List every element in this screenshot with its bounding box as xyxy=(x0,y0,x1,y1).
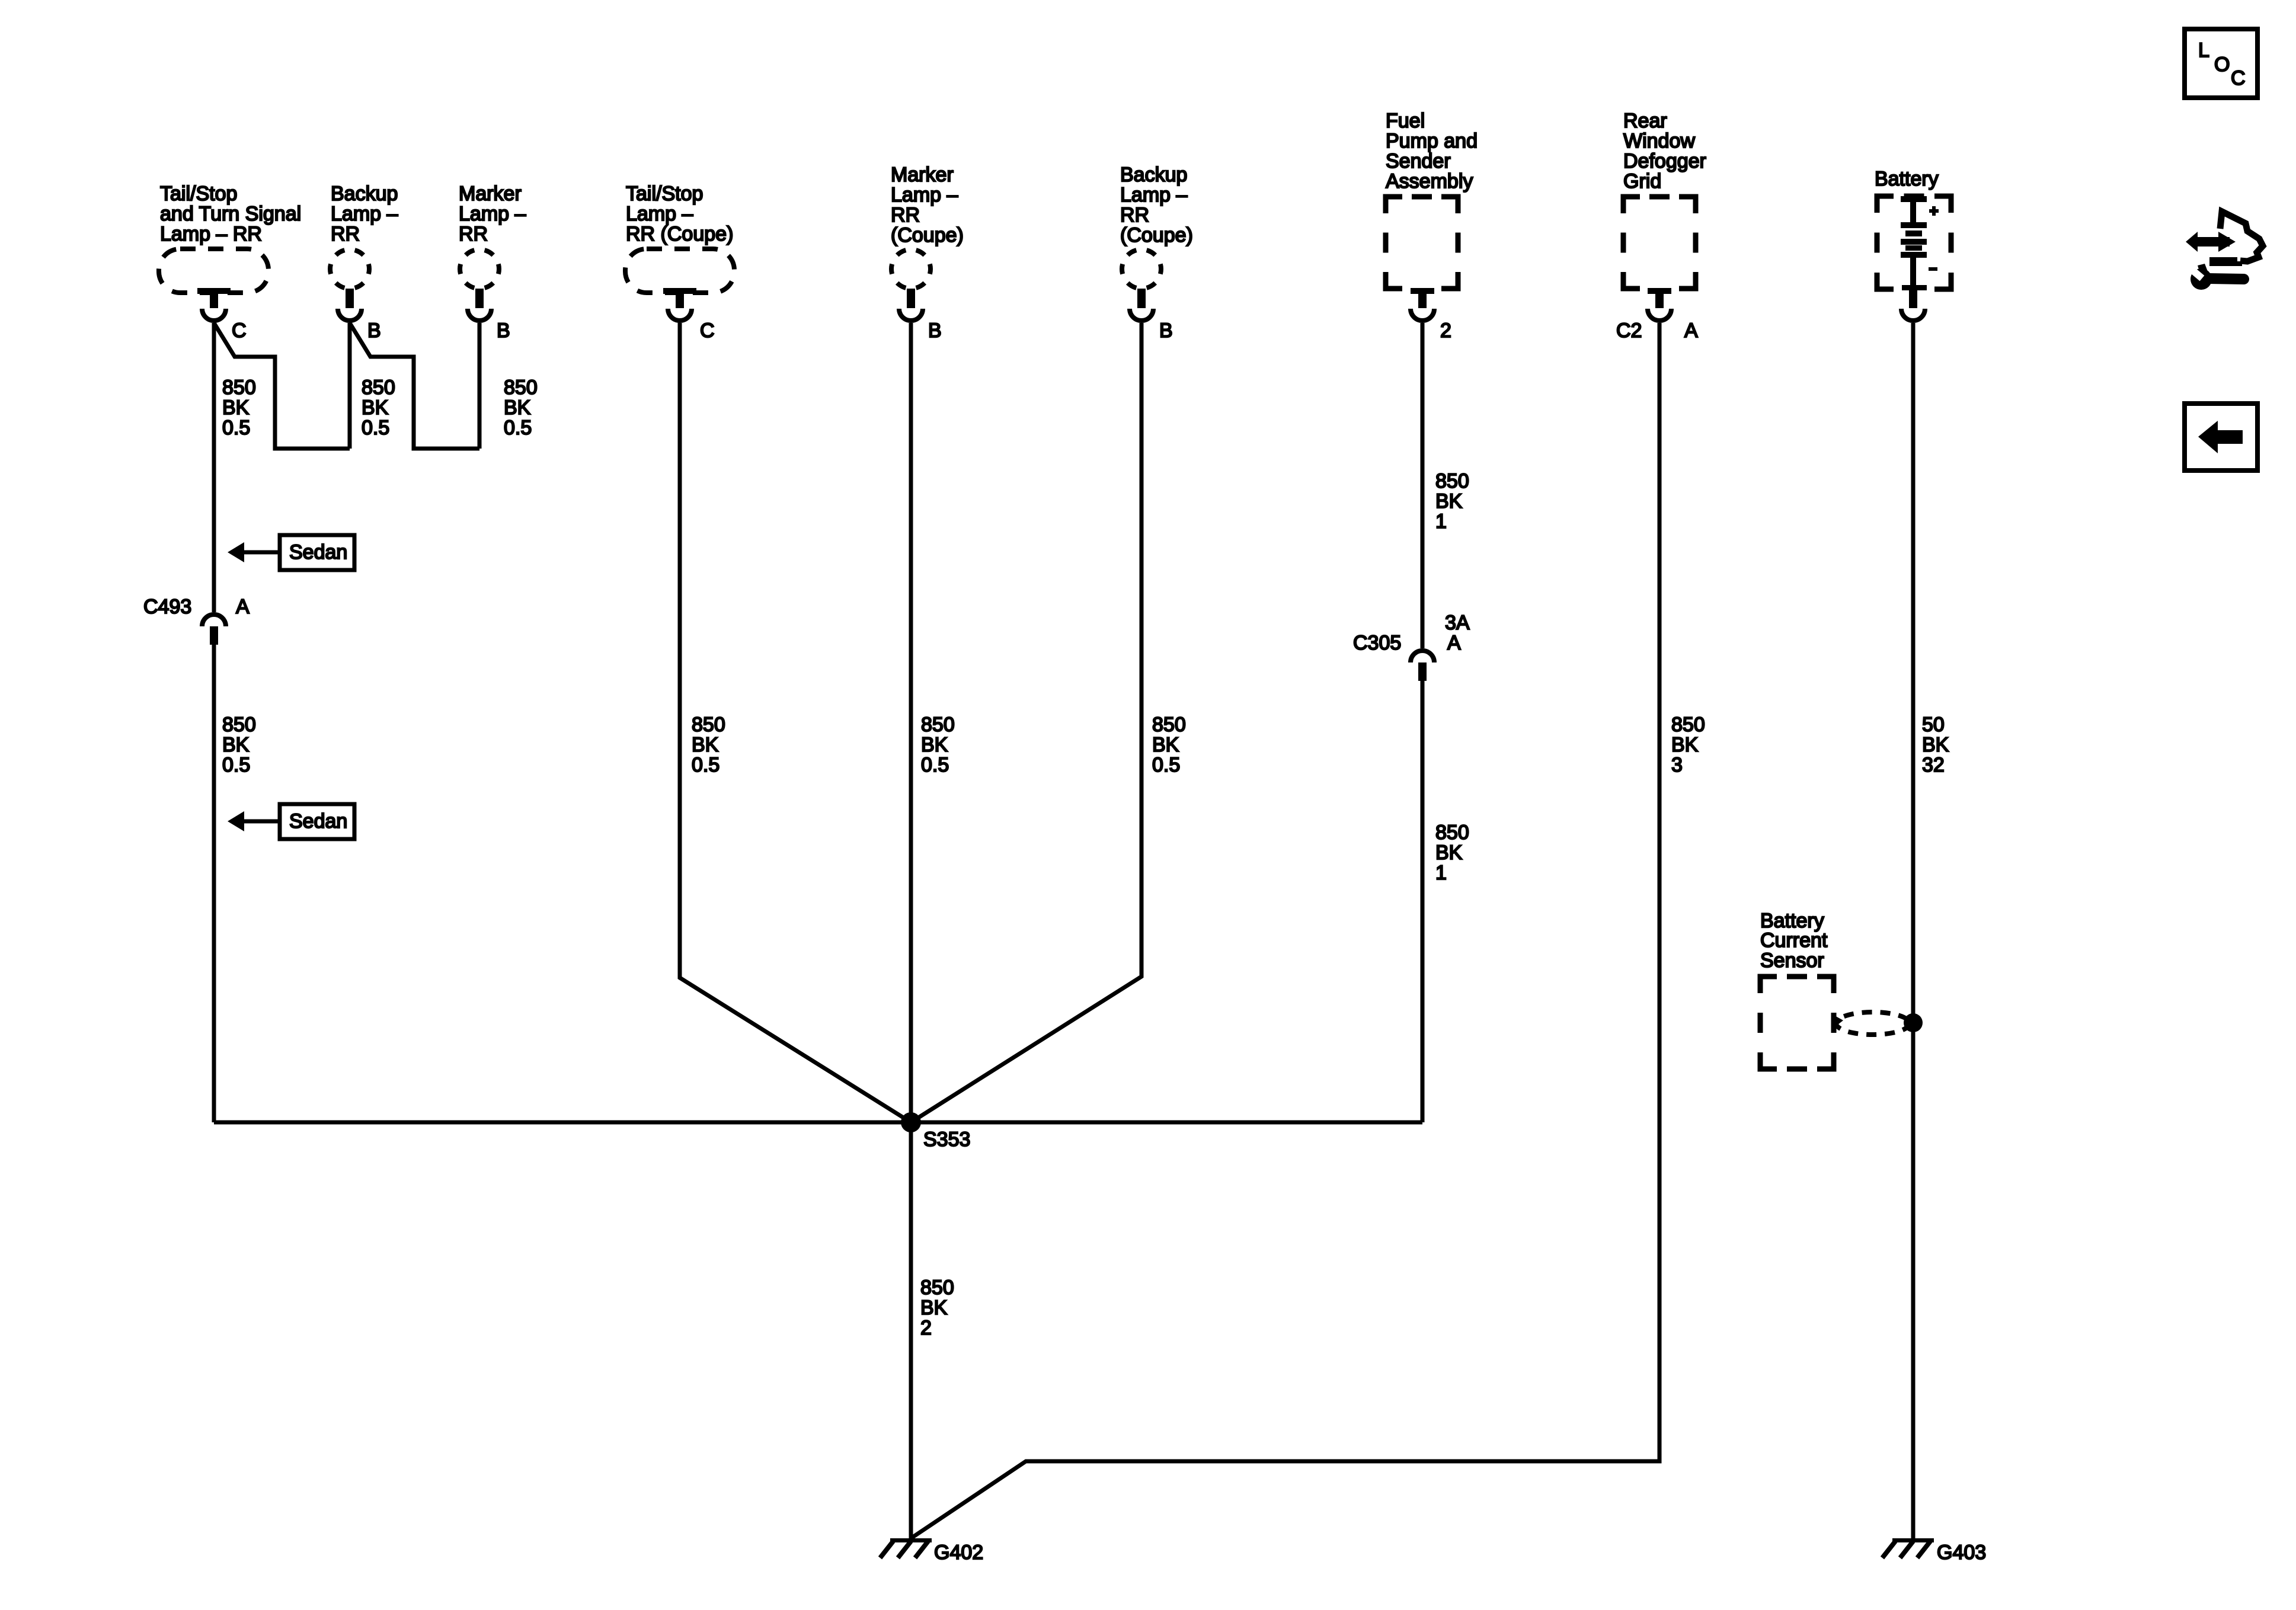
svg-text:BK: BK xyxy=(1671,734,1699,756)
svg-text:Sender: Sender xyxy=(1386,150,1451,172)
svg-text:C: C xyxy=(700,319,715,342)
svg-text:A: A xyxy=(236,596,250,618)
svg-text:BK: BK xyxy=(504,396,531,419)
svg-text:850: 850 xyxy=(222,713,256,736)
label: Tail/Stop Lamp - RR (Coupe) heading xyxy=(626,183,733,245)
svg-text:2: 2 xyxy=(1440,319,1451,342)
svg-text:BK: BK xyxy=(692,734,719,756)
component: Battery (dashed box with battery symbol) xyxy=(1877,196,1951,321)
svg-text:BK: BK xyxy=(921,734,948,756)
ground G402 xyxy=(880,1538,983,1564)
svg-text:0.5: 0.5 xyxy=(362,417,389,439)
svg-text:Marker: Marker xyxy=(891,164,954,186)
label: Marker Lamp - RR heading xyxy=(459,183,526,245)
svg-text:Sedan: Sedan xyxy=(289,541,347,564)
battery - terminal mark xyxy=(1929,267,1937,271)
value label: 850 BK 1 (above C305) xyxy=(1435,470,1469,533)
svg-text:Rear: Rear xyxy=(1623,110,1667,132)
label: Rear Window Defogger Grid heading xyxy=(1623,110,1706,193)
label: Battery Current Sensor heading xyxy=(1760,910,1828,972)
svg-text:850: 850 xyxy=(362,376,395,399)
svg-text:Tail/Stop: Tail/Stop xyxy=(626,183,703,205)
wire: Backup Lamp - RR pin B drop xyxy=(348,323,352,449)
wire: jumper from Backup Lamp pin B to Marker Lamp pin B xyxy=(350,323,479,449)
value label: 850 BK 0.5 (marker coupe) xyxy=(921,713,955,776)
svg-text:1: 1 xyxy=(1435,862,1447,884)
component: Rear Window Defogger Grid (dashed box) xyxy=(1623,197,1696,321)
svg-text:C305: C305 xyxy=(1353,632,1401,654)
svg-text:850: 850 xyxy=(504,376,538,399)
svg-text:0.5: 0.5 xyxy=(222,754,250,776)
connector C305 (in-line) xyxy=(1411,651,1434,681)
wire: 850 BK 0.5 from Tail/Stop lamp pin C down to C493 xyxy=(212,323,216,612)
svg-text:Lamp –: Lamp – xyxy=(1120,184,1187,206)
label: Fuel Pump and Sender Assembly heading xyxy=(1386,110,1478,193)
svg-text:B: B xyxy=(928,319,942,342)
svg-text:Pump and: Pump and xyxy=(1386,130,1478,152)
svg-text:Defogger: Defogger xyxy=(1623,150,1706,172)
svg-text:Marker: Marker xyxy=(459,183,522,205)
svg-text:BK: BK xyxy=(1435,490,1463,513)
svg-text:(Coupe): (Coupe) xyxy=(1120,224,1193,247)
value label: 850 BK 2 (splice to G402) xyxy=(920,1276,954,1339)
wire: jumper from pin C to Backup Lamp pin B xyxy=(214,323,350,449)
svg-text:A: A xyxy=(1447,632,1461,654)
svg-text:850: 850 xyxy=(692,713,725,736)
svg-text:BK: BK xyxy=(222,734,250,756)
svg-text:Grid: Grid xyxy=(1623,170,1661,193)
wire: 850 BK 1 from C305 down to ground bus xyxy=(1421,681,1425,1122)
svg-text:S353: S353 xyxy=(923,1128,970,1151)
svg-text:3A: 3A xyxy=(1445,612,1470,634)
svg-text:Battery: Battery xyxy=(1875,168,1939,190)
value label: 850 BK 1 (below C305) xyxy=(1435,821,1469,884)
wire: 850 BK 1 from Fuel Pump pin 2 down to C305 xyxy=(1421,323,1425,648)
svg-text:Window: Window xyxy=(1623,130,1695,152)
connector C493 (in-line) xyxy=(202,614,226,645)
svg-text:and Turn Signal: and Turn Signal xyxy=(160,203,301,225)
svg-text:2: 2 xyxy=(920,1317,932,1339)
svg-text:Sedan: Sedan xyxy=(289,810,347,833)
svg-text:L: L xyxy=(2198,39,2209,62)
callout: Sedan arrow 2 xyxy=(228,804,354,839)
svg-text:RR: RR xyxy=(1120,204,1149,226)
wire: 850 BK 0.5 from Backup Coupe pin B to splice S353 xyxy=(911,323,1141,1122)
svg-text:RR (Coupe): RR (Coupe) xyxy=(626,223,733,245)
value label: 850 BK 0.5 (tail/stop coupe) xyxy=(692,713,725,776)
svg-text:850: 850 xyxy=(921,713,955,736)
wire: Marker Lamp - RR pin B drop xyxy=(478,323,482,449)
svg-text:0.5: 0.5 xyxy=(504,417,532,439)
svg-text:B: B xyxy=(1159,319,1173,342)
svg-text:BK: BK xyxy=(362,396,389,419)
svg-text:Backup: Backup xyxy=(1120,164,1187,186)
wire: 50 BK 32 from Battery negative to ground G403 xyxy=(1911,323,1916,1538)
svg-text:C: C xyxy=(2231,67,2246,89)
svg-text:BK: BK xyxy=(222,396,250,419)
value label: 850 BK 0.5 (tail/stop RR) xyxy=(222,376,256,439)
svg-text:0.5: 0.5 xyxy=(222,417,250,439)
svg-text:C2: C2 xyxy=(1616,319,1642,342)
battery + terminal mark xyxy=(1929,206,1939,216)
junction: battery current sensor loop on battery ground cable xyxy=(1904,1013,1923,1032)
ground G403 xyxy=(1882,1538,1986,1564)
svg-text:32: 32 xyxy=(1922,754,1945,776)
svg-text:O: O xyxy=(2214,53,2230,76)
component: Fuel Pump and Sender Assembly (dashed box) xyxy=(1386,197,1458,321)
svg-text:RR: RR xyxy=(891,204,920,226)
svg-text:Lamp – RR: Lamp – RR xyxy=(160,223,262,245)
wire: 850 BK 0.5 from Marker Coupe pin B through S353 down to ground G402 xyxy=(909,323,913,1538)
svg-text:1: 1 xyxy=(1435,510,1447,533)
icon: back-arrow box xyxy=(2185,404,2257,470)
svg-text:850: 850 xyxy=(222,376,256,399)
svg-text:Backup: Backup xyxy=(331,183,398,205)
wire: 850 BK 0.5 from Tail/Stop Coupe pin C to splice S353 xyxy=(680,323,911,1122)
battery current sensor pickup loop (dashed ellipse) xyxy=(1834,1012,1910,1035)
value label: 50 BK 32 (battery cable) xyxy=(1922,713,1949,776)
lamp: Backup Lamp - RR (dashed circle) xyxy=(330,249,369,321)
wire: 850 BK 3 from Defogger pin A down and left to ground G402 xyxy=(911,323,1659,1538)
svg-text:RR: RR xyxy=(331,223,360,245)
svg-text:G402: G402 xyxy=(934,1541,983,1564)
svg-text:G403: G403 xyxy=(1937,1541,1986,1564)
svg-text:BK: BK xyxy=(1922,734,1949,756)
lamp: Tail/Stop Lamp - RR Coupe (dashed outline) xyxy=(625,249,734,321)
lamp: Backup Lamp - RR Coupe (dashed circle) xyxy=(1122,249,1161,321)
svg-text:850: 850 xyxy=(1435,470,1469,492)
wire: 850 BK 0.5 from C493 down to ground bus xyxy=(212,645,216,1122)
svg-text:B: B xyxy=(367,319,381,342)
svg-text:Lamp –: Lamp – xyxy=(891,184,958,206)
svg-text:Assembly: Assembly xyxy=(1386,170,1473,193)
svg-text:0.5: 0.5 xyxy=(921,754,949,776)
svg-text:850: 850 xyxy=(1435,821,1469,844)
component: Battery Current Sensor (dashed box) xyxy=(1760,977,1834,1069)
label: Battery heading xyxy=(1875,168,1939,190)
svg-text:C: C xyxy=(232,319,247,342)
value label: 850 BK 3 (defogger) xyxy=(1671,713,1705,776)
svg-text:Fuel: Fuel xyxy=(1386,110,1425,132)
value label: 850 BK 0.5 (marker RR) xyxy=(504,376,538,439)
svg-text:850: 850 xyxy=(1671,713,1705,736)
label: Backup Lamp - RR (Coupe) heading xyxy=(1120,164,1193,247)
callout: Sedan arrow 1 xyxy=(228,535,354,570)
svg-text:Lamp –: Lamp – xyxy=(459,203,526,225)
svg-text:RR: RR xyxy=(459,223,488,245)
svg-text:850: 850 xyxy=(1152,713,1186,736)
value label: 850 BK 0.5 (below C493) xyxy=(222,713,256,776)
label: Backup Lamp - RR heading xyxy=(331,183,398,245)
lamp: Tail/Stop and Turn Signal Lamp - RR (dashed outline) xyxy=(159,249,268,321)
label: Marker Lamp - RR (Coupe) heading xyxy=(891,164,964,247)
svg-text:Sensor: Sensor xyxy=(1760,949,1824,972)
svg-text:Tail/Stop: Tail/Stop xyxy=(160,183,237,205)
svg-text:Lamp –: Lamp – xyxy=(331,203,398,225)
svg-text:B: B xyxy=(497,319,510,342)
wire: ground bus horizontal into splice S353 and on to fuel pump drop xyxy=(214,1121,1422,1125)
svg-text:850: 850 xyxy=(920,1276,954,1299)
svg-text:A: A xyxy=(1684,319,1698,342)
icon: LOC reference box xyxy=(2185,29,2257,98)
svg-text:BK: BK xyxy=(1435,841,1463,864)
svg-text:50: 50 xyxy=(1922,713,1945,736)
svg-text:Lamp –: Lamp – xyxy=(626,203,693,225)
svg-text:0.5: 0.5 xyxy=(1152,754,1180,776)
svg-text:BK: BK xyxy=(1152,734,1179,756)
svg-text:BK: BK xyxy=(920,1297,948,1319)
svg-text:3: 3 xyxy=(1671,754,1683,776)
value label: 850 BK 0.5 (backup coupe) xyxy=(1152,713,1186,776)
label: Tail/Stop and Turn Signal Lamp - RR heading xyxy=(160,183,301,245)
svg-text:C493: C493 xyxy=(143,596,191,618)
splice S353 xyxy=(901,1112,921,1132)
svg-text:Current: Current xyxy=(1760,929,1828,952)
value label: 850 BK 0.5 (backup RR) xyxy=(362,376,395,439)
svg-text:0.5: 0.5 xyxy=(692,754,720,776)
lamp: Marker Lamp - RR Coupe (dashed circle) xyxy=(891,249,930,321)
svg-text:(Coupe): (Coupe) xyxy=(891,224,964,247)
icon: component service/removal symbol (arrows and wrench) xyxy=(2186,212,2263,290)
lamp: Marker Lamp - RR (dashed circle) xyxy=(460,249,499,321)
